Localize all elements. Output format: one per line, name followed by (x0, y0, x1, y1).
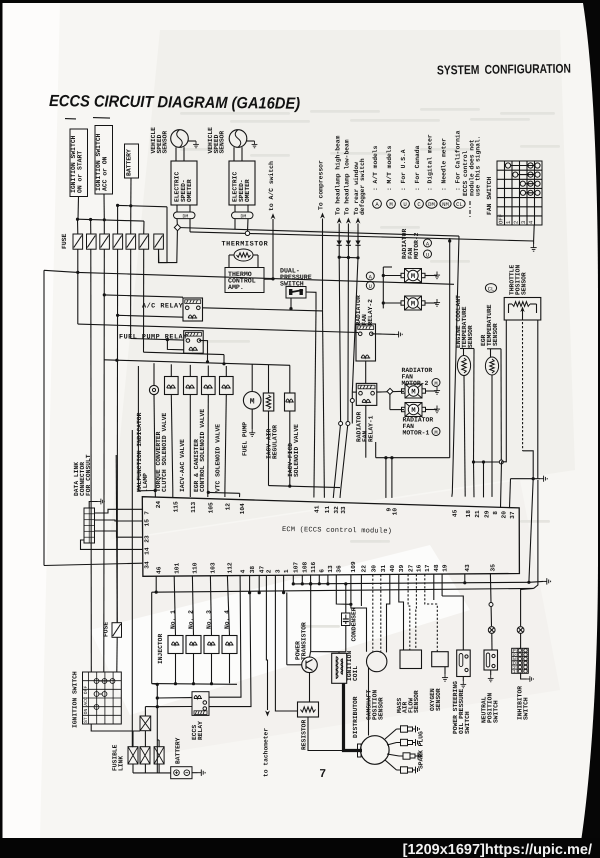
svg-text:OMETER: OMETER (186, 179, 193, 202)
wire: speedo2 legs to pill (234, 205, 236, 212)
svg-text:10: 10 (392, 508, 399, 516)
svg-text:11: 11 (324, 506, 331, 514)
junction dots on diode bus (338, 256, 341, 259)
wire: fuse4 down to FUSE box (bottom) (116, 249, 118, 623)
EGR sensor wiring bracket (490, 349, 492, 357)
CONDENSER (342, 613, 351, 626)
wire: battery down to L205 (130, 178, 132, 206)
spark plug lead 4 (385, 760, 397, 770)
vehicle speed sensor circle (171, 130, 189, 148)
svg-text:REGULATOR: REGULATOR (272, 425, 279, 459)
svg-text:To headlamp high-beam: To headlamp high-beam (334, 135, 341, 215)
neutral position switch cable (490, 574, 491, 626)
resistor to distributor wire (308, 717, 344, 751)
bottom url bar (0, 838, 600, 858)
radiator circuit return rectangle (449, 238, 451, 458)
svg-text:DM: DM (241, 214, 247, 220)
POWER STEERING OIL PRESSURE SWITCH box (457, 650, 471, 677)
svg-text:INJECTOR: INJECTOR (157, 634, 164, 664)
spark plug lead 3 (387, 754, 399, 756)
svg-text:22: 22 (361, 565, 368, 573)
headlamp feeds descending to ECM pins 32/33 with connector circles (333, 257, 340, 498)
svg-text:6: 6 (319, 569, 326, 573)
ignition coil supply from bus A (pin 116 line) (309, 582, 312, 585)
svg-text:TRANSISTOR: TRANSISTOR (301, 622, 308, 660)
mass air flow sensor cables (399, 574, 404, 650)
power transistor rail from bus B (286, 593, 288, 665)
solenoid valve TORQUE CONVERTER (170, 364, 172, 376)
svg-text:CLUTCH SOLENOID VALVE: CLUTCH SOLENOID VALVE (161, 412, 168, 492)
svg-text:16: 16 (416, 564, 423, 572)
wire: L218 to fuse1 (77, 219, 79, 234)
svg-text:DM: DM (428, 201, 435, 208)
legend symbol C (415, 199, 424, 208)
left riser to battery circuit (131, 430, 133, 747)
branch to fuel pump relay coil (167, 340, 183, 350)
wire: speedo1 legs to pill (176, 205, 178, 212)
coolant sensor element (457, 356, 470, 376)
ECCS relay output to bus B riser (209, 593, 251, 706)
to compressor arrow and label (320, 213, 325, 219)
fuse F3 (100, 234, 110, 249)
wire: fuse3 down to ignition switch table (103, 249, 106, 672)
wire: fuse2 down to ignition switch table (90, 249, 93, 672)
svg-text:1: 1 (513, 669, 516, 675)
svg-text:ST ON ACC OFF: ST ON ACC OFF (83, 685, 89, 723)
svg-text:A/C RELAY: A/C RELAY (142, 303, 184, 311)
wire: fuse1 down to ignition bus B3 (77, 249, 79, 272)
svg-text:21: 21 (474, 510, 481, 518)
svg-text:3: 3 (275, 569, 282, 573)
wire: ign sw2 to fuse bus (103, 194, 105, 220)
data link connector body (84, 508, 95, 543)
relay-1 coil drop (365, 405, 367, 457)
wire: A/C relay output to DPS and riser (203, 308, 323, 311)
fusible link risers (132, 731, 134, 747)
camshaft sensor shielded cables (351, 575, 367, 652)
wire: B2 end down to fan switch ground (533, 241, 535, 244)
inhibitor switch ground (521, 673, 527, 679)
power steering oil pressure switch cable (441, 574, 443, 596)
wire: speedo2 right leg to connector circle on B2 (247, 219, 250, 232)
svg-text:MOTOR-2: MOTOR-2 (413, 232, 420, 259)
svg-text:LINK: LINK (118, 756, 125, 771)
feed arrow To headlamp low-beam (346, 218, 351, 224)
svg-text:RELAY: RELAY (197, 721, 204, 740)
svg-text:to A/C switch: to A/C switch (268, 161, 275, 211)
wire: base from rail (287, 664, 302, 666)
svg-text:No. 1: No. 1 (170, 610, 177, 629)
wire: fuel pump relay output to solenoid bus riser (199, 340, 207, 362)
wire: L205 elbow down to fuse7 riser (159, 207, 168, 263)
svg-text:1: 1 (283, 569, 290, 573)
high tension lead (thick) (344, 683, 363, 750)
svg-text:SENSOR: SENSOR (413, 690, 420, 713)
ECM text (282, 525, 392, 536)
svg-text:CL: CL (456, 201, 463, 208)
svg-text:IACV-AAC VALVE: IACV-AAC VALVE (179, 439, 186, 492)
pins 2/3/1 drops (ignition primary) (265, 575, 267, 640)
svg-text:SENSOR: SENSOR (378, 697, 385, 720)
svg-text:41: 41 (314, 505, 321, 513)
diagram title: ECCS CIRCUIT DIAGRAM (GA16DE) (49, 92, 300, 113)
svg-text:FOR CONSULT: FOR CONSULT (85, 454, 92, 496)
fuse F2 (87, 234, 97, 249)
svg-text:36: 36 (336, 565, 343, 573)
speedometer connector pill DM (232, 212, 254, 219)
svg-text:7: 7 (144, 511, 151, 515)
fuse F4 (113, 234, 123, 249)
svg-text:ECCS CIRCUIT DIAGRAM (GA16DE): ECCS CIRCUIT DIAGRAM (GA16DE) (49, 92, 300, 113)
svg-text:M: M (389, 201, 392, 208)
svg-text:8: 8 (492, 511, 499, 515)
left trunk wire down to ECM pin 34 (43, 270, 45, 565)
fuse F7 (154, 234, 164, 249)
svg-text:27: 27 (407, 564, 414, 572)
feed arrow To rear window (356, 218, 361, 224)
page header: SYSTEM CONFIGURATION (437, 61, 571, 78)
svg-text:34: 34 (144, 561, 151, 569)
svg-text:29: 29 (483, 510, 490, 518)
TPS left wire down to ECM pin 20 (501, 320, 507, 508)
pin 43 drop to bus A (464, 574, 466, 583)
vss ground stub (188, 140, 196, 142)
svg-text:DM: DM (183, 214, 189, 220)
solenoid valve VTC SOLENOID VALVE (225, 366, 227, 377)
radiator fan relay-1 (356, 383, 377, 405)
legend symbol DM (426, 199, 437, 208)
svg-text:116: 116 (310, 561, 317, 572)
svg-text:CL: CL (488, 286, 494, 292)
wire: coolant sensor to ECM pin 18 (464, 376, 465, 497)
wire: speedo1 left leg to diamond junction (176, 219, 179, 228)
wire: fuse5 to fuel pump relay contact (131, 339, 184, 341)
pin 46 drop to bus B (155, 576, 157, 592)
wire: relay-1 right pin to diamond and motors (376, 390, 404, 393)
fuel pump relay box (184, 331, 204, 354)
condenser wires (345, 584, 347, 613)
legend symbol NM (440, 199, 451, 208)
svg-text:SENSOR: SENSOR (492, 323, 499, 346)
OXYGEN SENSOR box (432, 652, 449, 667)
bus L218 ignition feed (78, 219, 145, 221)
bus B below ECM (152, 588, 534, 592)
svg-text:FAN SWITCH: FAN SWITCH (486, 176, 493, 215)
svg-text:ECM (ECCS control module): ECM (ECCS control module) (282, 525, 392, 536)
svg-text:: For California: : For California (455, 130, 462, 191)
radiator fan motor (upper A) (401, 269, 425, 283)
pin 36 drop to camshaft cable (336, 575, 351, 604)
spark plug (397, 767, 420, 774)
radiator fan motor (upper B) (401, 296, 425, 310)
fuel pump motor (251, 364, 253, 391)
wire: emitter down to resistor (309, 673, 311, 702)
wire: L218 to fuse3 (103, 220, 105, 234)
spark plug (397, 739, 420, 746)
svg-text:108: 108 (302, 561, 309, 572)
NPS ground (490, 670, 492, 675)
svg-text:SOLENOID VALVE: SOLENOID VALVE (293, 424, 300, 477)
spark plug (397, 726, 420, 733)
IACV-air regulator (268, 365, 270, 393)
electric speedometer box (171, 161, 197, 205)
svg-text:23: 23 (144, 535, 151, 543)
wire: collector to coil line (310, 652, 311, 657)
svg-text:IGNITION SWITCH: IGNITION SWITCH (72, 671, 79, 728)
diode symbol (337, 241, 342, 246)
svg-text:M: M (411, 301, 415, 309)
svg-text:3: 3 (520, 221, 527, 224)
To tachometer label and arrow (266, 640, 267, 710)
TPS wiper arrow (520, 307, 524, 313)
EGR temp sensor element (485, 357, 498, 375)
battery box (top) (125, 144, 139, 178)
svg-text:RESISTOR: RESISTOR (301, 720, 308, 750)
CAMSHAFT POSITION SENSOR circle (367, 651, 387, 671)
svg-text:CONTROL SOLENOID VALVE: CONTROL SOLENOID VALVE (199, 409, 206, 492)
wire continuing down to lower bus (529, 479, 533, 583)
wire: L205 to fuse4 (117, 205, 119, 234)
IGNITION COIL box (332, 653, 347, 683)
lower motor grounds (426, 390, 437, 392)
wire: relay-2 coil to relay-1 (365, 361, 367, 383)
table bottom wire to fusible link 4 (91, 724, 140, 731)
svg-text:14: 14 (144, 547, 151, 555)
wire: fuse5 down to fuel pump relay feed (130, 249, 132, 338)
TPS wiper shielded wire (dashed) down (522, 322, 524, 451)
bus L205 battery feed (118, 205, 167, 206)
svg-text:103: 103 (210, 562, 217, 573)
svg-text:SWITCH: SWITCH (523, 697, 530, 720)
ECCS relay box (192, 692, 209, 716)
scan bleed ghosts (180, 108, 560, 628)
wire: B1 corner down right side toward ECM pin 45 (452, 236, 459, 497)
wire: L205 to fuse5 (130, 206, 132, 234)
wires: air regulator and FICD to pin 33 line (268, 411, 270, 486)
svg-text:110: 110 (192, 562, 199, 573)
svg-text:18: 18 (465, 510, 472, 518)
svg-text:SWITCH: SWITCH (493, 700, 500, 723)
svg-text:ACC or ON: ACC or ON (102, 156, 109, 191)
legend symbol CL (454, 199, 465, 208)
injector No.3 (210, 576, 211, 636)
svg-text:SENSOR: SENSOR (162, 131, 169, 154)
legend symbol U (401, 199, 410, 208)
cut mark above ignition switch 2 (93, 117, 110, 120)
svg-text:M: M (411, 273, 415, 281)
svg-text:MOTOR-1: MOTOR-1 (403, 430, 430, 437)
svg-text:[1209x1697]https://upic.me/: [1209x1697]https://upic.me/ (403, 842, 592, 858)
bus B left drop to injector bus (151, 592, 153, 683)
oxygen sensor cable (425, 574, 438, 652)
svg-text:45: 45 (452, 509, 459, 517)
upper motor grounds (426, 275, 438, 277)
svg-text:37: 37 (509, 511, 516, 519)
svg-text:105: 105 (208, 502, 215, 513)
wire: L218 to fuse2 (90, 220, 92, 235)
svg-text:FUSE: FUSE (103, 622, 110, 637)
radiator fan relay-2 (356, 324, 376, 361)
svg-text:RELAY-2: RELAY-2 (367, 299, 374, 326)
svg-text:M: M (250, 397, 255, 406)
svg-text:to tachometer: to tachometer (263, 728, 270, 777)
DISTRIBUTOR circle (361, 736, 390, 765)
PSOPS ground (462, 677, 464, 682)
trunk wire to ECM pin 34 (44, 563, 142, 565)
radiator fan motor symbol (relay-1 lower) (402, 403, 426, 417)
dash-dot line sample (469, 201, 471, 218)
fuse F5 (126, 234, 136, 249)
wire: DPS right to vertical riser (306, 292, 316, 310)
thermistor element (234, 249, 253, 261)
svg-text:20: 20 (500, 511, 507, 519)
svg-text:47: 47 (258, 565, 265, 573)
IACV-FICD solenoid valve (289, 365, 291, 393)
svg-text:SENSOR: SENSOR (219, 131, 226, 154)
wire: speedo1 right leg to bus B2 (189, 219, 191, 232)
svg-text:No. 3: No. 3 (206, 610, 213, 629)
svg-text:17: 17 (424, 564, 431, 572)
pin 4 drop to ECCS relay (209, 576, 241, 698)
fuel pump ground (251, 409, 253, 429)
wire: thermo amp output to A/C switch line (264, 278, 273, 280)
riser from DPS to ECM pin 41 (314, 310, 316, 498)
spark plug (399, 753, 422, 760)
fusible link 4 (upper) (140, 716, 151, 731)
svg-text:48: 48 (433, 564, 440, 572)
solenoid supply bus (104, 360, 290, 366)
svg-text:104: 104 (239, 503, 246, 514)
power transistor circle (302, 657, 318, 673)
svg-text:U: U (369, 284, 372, 290)
to A/C switch arrow and label (271, 213, 276, 219)
DLC bottom wire to ECM pin 14 (81, 540, 143, 549)
wire: L218 end to fuse6 (143, 221, 145, 234)
svg-text:: For Canada: : For Canada (414, 145, 421, 191)
riser to bottom FUSE box (116, 455, 117, 623)
diode symbol (355, 241, 360, 246)
bus A below ECM (293, 582, 529, 584)
thermo control amp box (225, 268, 264, 293)
junction line for pins 21/29 with connector circle (474, 461, 502, 463)
injector No.4 (227, 576, 229, 636)
pins 107/108/116 drops to bus A (292, 575, 294, 584)
fan switch contact circles (505, 163, 510, 168)
battery bus (132, 764, 134, 773)
pins 6/13 drops to bus A (318, 575, 320, 584)
svg-text:: For U.S.A: : For U.S.A (400, 149, 407, 191)
vss ground stub (247, 140, 255, 142)
svg-text:39: 39 (398, 564, 405, 572)
bottom trunk from battery (156, 684, 158, 772)
bus B2 with connector circle (190, 232, 534, 241)
wire: relay-1 left pin with connector circle (352, 391, 357, 393)
svg-text:12: 12 (225, 503, 232, 511)
svg-text:30: 30 (371, 565, 378, 573)
coolant sensor wiring bracket (463, 349, 465, 356)
svg-text:RELAY-1: RELAY-1 (367, 415, 374, 442)
fuse F6 (139, 234, 149, 249)
spark plug lead 2 (387, 743, 397, 746)
A/C relay box (183, 298, 203, 321)
TPS ground bus (511, 478, 541, 480)
svg-text:113: 113 (190, 501, 197, 512)
wire: vss2 right leg into speedometer 2 (241, 147, 243, 161)
svg-text:No. 2: No. 2 (188, 610, 195, 629)
svg-text:SWITCH: SWITCH (464, 711, 471, 734)
upper motor loop wiring (383, 275, 401, 277)
svg-text:No. 4: No. 4 (224, 610, 231, 629)
svg-text:40: 40 (389, 565, 396, 573)
wire: ign sw1 to fuse bus (77, 197, 80, 220)
svg-text:NM: NM (442, 201, 449, 208)
svg-text:4: 4 (239, 569, 246, 573)
radiator fan motor symbol (relay-1 upper) (402, 384, 426, 398)
svg-text:2: 2 (513, 221, 520, 224)
ignition switch ON/START box (70, 129, 88, 197)
MASS AIR FLOW SENSOR box (400, 650, 422, 669)
svg-text:SPARK PLUG: SPARK PLUG (418, 731, 425, 769)
svg-text:COIL: COIL (352, 666, 359, 681)
injector No.2 (192, 576, 193, 636)
svg-text:SYSTEM CONFIGURATION: SYSTEM CONFIGURATION (437, 61, 571, 78)
svg-text:DISTRIBUTOR: DISTRIBUTOR (352, 696, 359, 738)
wire: fuse6 elbow to bus riser (144, 352, 225, 354)
svg-text:CONDENSER: CONDENSER (351, 607, 358, 641)
svg-text:To headlamp low-beam: To headlamp low-beam (344, 139, 351, 215)
ECCS relay feeds (157, 697, 192, 699)
wire: DPS bottom tap (290, 298, 292, 309)
svg-text:101: 101 (173, 562, 180, 573)
svg-text:43: 43 (464, 564, 471, 572)
cut mark above ignition switch 1 (65, 118, 76, 120)
wire: MIL to ECM pin 24 (154, 395, 155, 491)
NEUTRAL POSITION SWITCH box (484, 650, 498, 670)
spark plug lead 1 (385, 729, 397, 739)
svg-text:109: 109 (350, 561, 357, 572)
svg-text:35: 35 (490, 564, 497, 572)
svg-text:46: 46 (155, 566, 162, 574)
wire: fuse3 tap to A/C relay contact (104, 295, 183, 297)
svg-text:: Digital meter: : Digital meter (427, 134, 434, 191)
svg-text:24: 24 (155, 501, 162, 509)
risers to ECM pins 9/10 (385, 458, 387, 498)
svg-text:BATTERY: BATTERY (126, 149, 133, 176)
FUSE box (bottom) (112, 623, 122, 638)
svg-text:38: 38 (249, 566, 256, 574)
svg-text:15: 15 (144, 519, 151, 527)
ECM (ECCS control module) box (142, 497, 519, 577)
svg-text:BATTERY: BATTERY (175, 737, 182, 764)
svg-text:defogger switch: defogger switch (359, 158, 366, 215)
svg-text:FUEL PUMP: FUEL PUMP (242, 422, 249, 456)
ignition bus B3 (44, 270, 454, 284)
svg-text:SENSOR: SENSOR (521, 272, 528, 295)
battery box (bottom) (171, 767, 192, 779)
inhibitor switch cable (521, 588, 534, 626)
thermistor legs (229, 254, 234, 256)
legend symbol A (373, 199, 382, 208)
DLC ground (89, 502, 97, 509)
svg-text:M: M (411, 389, 415, 397)
bus A right ground (529, 580, 543, 583)
wire: speedo2 left leg to bus B1 (234, 219, 236, 230)
malfunction indicator lamp (153, 363, 155, 385)
svg-text:To compressor: To compressor (318, 160, 325, 210)
TPS right wire down (537, 320, 539, 479)
svg-text:use this signal.: use this signal. (475, 136, 482, 196)
vehicle speed sensor circle (229, 130, 247, 148)
